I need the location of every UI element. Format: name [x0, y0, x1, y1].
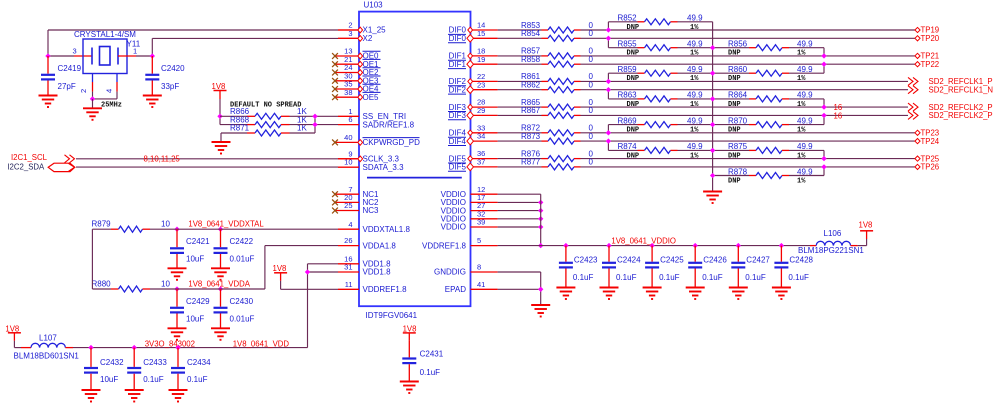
- svg-text:C2421: C2421: [186, 237, 210, 246]
- svg-text:TP22: TP22: [921, 60, 940, 69]
- svg-text:0.1uF: 0.1uF: [187, 375, 208, 384]
- svg-text:23: 23: [477, 80, 485, 89]
- svg-text:DNP: DNP: [728, 50, 741, 58]
- svg-text:R880: R880: [92, 279, 112, 288]
- svg-text:49.9: 49.9: [797, 167, 813, 176]
- svg-text:49.9: 49.9: [687, 91, 703, 100]
- svg-text:C2429: C2429: [186, 297, 210, 306]
- svg-text:49.9: 49.9: [687, 14, 703, 23]
- svg-text:VDDXTAL1.8: VDDXTAL1.8: [363, 225, 411, 234]
- svg-text:EPAD: EPAD: [445, 285, 466, 294]
- svg-text:R879: R879: [92, 220, 112, 229]
- svg-text:R864: R864: [728, 91, 748, 100]
- svg-text:R874: R874: [618, 142, 638, 151]
- svg-text:C2425: C2425: [660, 255, 684, 264]
- svg-text:10: 10: [344, 158, 352, 167]
- svg-text:VDDA1.8: VDDA1.8: [363, 241, 397, 250]
- svg-text:IDT9FGV0641: IDT9FGV0641: [366, 311, 418, 320]
- svg-text:19: 19: [477, 55, 485, 64]
- svg-text:BLM18BD601SN1: BLM18BD601SN1: [14, 351, 80, 360]
- svg-text:41: 41: [477, 280, 485, 289]
- svg-text:1%: 1%: [797, 101, 806, 109]
- svg-text:49.9: 49.9: [797, 40, 813, 49]
- svg-text:VDD1.8: VDD1.8: [363, 268, 392, 277]
- svg-text:3V3O_843002: 3V3O_843002: [145, 339, 195, 348]
- svg-text:R878: R878: [728, 167, 748, 176]
- svg-text:0.1uF: 0.1uF: [659, 273, 680, 282]
- svg-text:0.1uF: 0.1uF: [420, 368, 441, 377]
- svg-text:1V8: 1V8: [212, 82, 226, 91]
- svg-text:NC3: NC3: [363, 206, 380, 215]
- svg-text:C2419: C2419: [58, 64, 82, 73]
- svg-text:R873: R873: [521, 132, 541, 141]
- svg-text:R862: R862: [521, 81, 541, 90]
- svg-text:10uF: 10uF: [186, 254, 204, 263]
- svg-text:1V8: 1V8: [5, 324, 19, 333]
- svg-text:1%: 1%: [690, 50, 699, 58]
- svg-text:8: 8: [477, 263, 481, 272]
- svg-text:0.1uF: 0.1uF: [788, 273, 809, 282]
- svg-text:11: 11: [345, 280, 353, 289]
- svg-text:C2433: C2433: [143, 358, 167, 367]
- svg-text:DIF4: DIF4: [449, 137, 467, 146]
- svg-text:R867: R867: [521, 106, 541, 115]
- svg-text:VDDREF1.8: VDDREF1.8: [363, 285, 408, 294]
- svg-text:SADR/REF1.8: SADR/REF1.8: [363, 120, 415, 129]
- svg-text:1V8_0641_VDD: 1V8_0641_VDD: [233, 339, 290, 348]
- svg-text:49.9: 49.9: [687, 65, 703, 74]
- svg-text:DIF0: DIF0: [449, 34, 467, 43]
- svg-text:I2C2_SDA: I2C2_SDA: [7, 163, 45, 172]
- svg-text:0.1uF: 0.1uF: [745, 273, 766, 282]
- svg-text:0.1uF: 0.1uF: [573, 273, 594, 282]
- svg-text:0.1uF: 0.1uF: [702, 273, 723, 282]
- svg-text:DIF3: DIF3: [449, 111, 467, 120]
- svg-text:R877: R877: [521, 158, 541, 167]
- svg-text:DNP: DNP: [627, 101, 640, 109]
- svg-text:34: 34: [477, 132, 485, 141]
- svg-text:TP20: TP20: [921, 34, 940, 43]
- svg-text:1%: 1%: [690, 75, 699, 83]
- svg-text:10: 10: [161, 279, 170, 288]
- svg-text:DNP: DNP: [627, 75, 640, 83]
- svg-text:R852: R852: [618, 14, 638, 23]
- svg-text:0: 0: [589, 29, 594, 38]
- svg-text:0: 0: [589, 158, 594, 167]
- svg-text:U103: U103: [364, 1, 384, 10]
- svg-text:BLM18PG221SN1: BLM18PG221SN1: [798, 246, 864, 255]
- svg-text:10: 10: [161, 220, 170, 229]
- svg-text:3: 3: [348, 29, 352, 38]
- svg-text:49.9: 49.9: [797, 116, 813, 125]
- svg-text:X2: X2: [363, 34, 373, 43]
- svg-text:DNP: DNP: [728, 178, 741, 186]
- svg-text:8,10,11,25: 8,10,11,25: [144, 154, 181, 163]
- svg-text:VDDREF1.8: VDDREF1.8: [422, 241, 467, 250]
- svg-text:DNP: DNP: [627, 50, 640, 58]
- svg-text:38: 38: [344, 88, 352, 97]
- svg-text:2: 2: [79, 89, 88, 93]
- svg-text:C2420: C2420: [161, 64, 185, 73]
- svg-text:C2432: C2432: [100, 358, 124, 367]
- svg-text:49.9: 49.9: [687, 40, 703, 49]
- svg-text:C2428: C2428: [789, 255, 813, 264]
- svg-text:27pF: 27pF: [58, 82, 76, 91]
- svg-text:0: 0: [589, 132, 594, 141]
- svg-text:0: 0: [589, 81, 594, 90]
- svg-text:0.01uF: 0.01uF: [230, 254, 255, 263]
- svg-text:1V8: 1V8: [273, 264, 287, 273]
- svg-text:DIF5: DIF5: [449, 163, 467, 172]
- svg-text:CKPWRGD_PD: CKPWRGD_PD: [363, 138, 421, 147]
- svg-text:15: 15: [477, 29, 485, 38]
- svg-text:R858: R858: [521, 55, 541, 64]
- svg-text:CRYSTAL1-4/SM: CRYSTAL1-4/SM: [74, 30, 136, 39]
- svg-text:C2423: C2423: [574, 255, 598, 264]
- svg-text:SDATA_3.3: SDATA_3.3: [363, 163, 405, 172]
- svg-text:1V8_0641_VDDIO: 1V8_0641_VDDIO: [611, 236, 676, 245]
- svg-text:R860: R860: [728, 65, 748, 74]
- svg-text:1%: 1%: [690, 127, 699, 135]
- svg-text:DNP: DNP: [728, 75, 741, 83]
- svg-text:DNP: DNP: [627, 127, 640, 135]
- svg-text:1%: 1%: [797, 127, 806, 135]
- svg-text:R859: R859: [618, 65, 638, 74]
- svg-text:0.1uF: 0.1uF: [143, 375, 164, 384]
- svg-text:TP24: TP24: [921, 137, 940, 146]
- svg-text:4: 4: [348, 220, 352, 229]
- svg-text:I2C1_SCL: I2C1_SCL: [11, 153, 48, 162]
- svg-text:39: 39: [477, 218, 485, 227]
- svg-text:29: 29: [477, 106, 485, 115]
- svg-text:C2422: C2422: [230, 237, 254, 246]
- svg-text:R869: R869: [618, 116, 638, 125]
- svg-text:C2431: C2431: [420, 349, 444, 358]
- svg-text:DNP: DNP: [728, 152, 741, 160]
- svg-text:DNP: DNP: [728, 127, 741, 135]
- svg-text:DNP: DNP: [728, 101, 741, 109]
- svg-text:4: 4: [105, 89, 114, 93]
- svg-text:R854: R854: [521, 29, 541, 38]
- svg-text:C2426: C2426: [703, 255, 727, 264]
- svg-text:DEFAULT NO SPREAD: DEFAULT NO SPREAD: [230, 101, 301, 109]
- svg-text:1%: 1%: [690, 101, 699, 109]
- svg-text:1V8_0641_VDDXTAL: 1V8_0641_VDDXTAL: [188, 220, 264, 229]
- svg-text:1%: 1%: [797, 178, 806, 186]
- svg-text:0.1uF: 0.1uF: [616, 273, 637, 282]
- svg-text:L106: L106: [824, 229, 842, 238]
- svg-text:0.01uF: 0.01uF: [230, 314, 255, 323]
- svg-text:1%: 1%: [690, 24, 699, 32]
- svg-text:37: 37: [477, 158, 485, 167]
- svg-text:DNP: DNP: [627, 152, 640, 160]
- svg-text:33pF: 33pF: [161, 82, 179, 91]
- svg-text:49.9: 49.9: [687, 142, 703, 151]
- svg-text:1V8: 1V8: [403, 324, 417, 333]
- svg-text:0: 0: [589, 106, 594, 115]
- svg-text:49.9: 49.9: [797, 65, 813, 74]
- svg-text:1%: 1%: [797, 50, 806, 58]
- svg-text:R871: R871: [230, 124, 250, 133]
- svg-text:10uF: 10uF: [100, 375, 118, 384]
- svg-text:DIF2: DIF2: [449, 85, 467, 94]
- svg-text:C2427: C2427: [746, 255, 770, 264]
- svg-text:25MHz: 25MHz: [101, 102, 122, 110]
- svg-text:TP26: TP26: [921, 163, 940, 172]
- svg-text:49.9: 49.9: [797, 91, 813, 100]
- svg-text:25: 25: [344, 201, 352, 210]
- svg-text:SD2_REFCLK1_N: SD2_REFCLK1_N: [929, 85, 994, 94]
- svg-text:3: 3: [73, 47, 77, 56]
- svg-text:GNDDIG: GNDDIG: [434, 268, 466, 277]
- svg-text:31: 31: [344, 263, 352, 272]
- svg-text:R855: R855: [618, 40, 638, 49]
- svg-text:1%: 1%: [797, 152, 806, 160]
- svg-text:1V8: 1V8: [859, 220, 873, 229]
- svg-text:16: 16: [834, 111, 843, 120]
- svg-text:0: 0: [589, 55, 594, 64]
- svg-text:1: 1: [133, 47, 137, 56]
- svg-text:R856: R856: [728, 40, 748, 49]
- svg-text:SD2_REFCLK2_P: SD2_REFCLK2_P: [929, 111, 993, 120]
- svg-text:DNP: DNP: [627, 24, 640, 32]
- svg-text:C2424: C2424: [617, 255, 641, 264]
- svg-text:1%: 1%: [690, 152, 699, 160]
- svg-text:R863: R863: [618, 91, 638, 100]
- svg-text:10uF: 10uF: [186, 314, 204, 323]
- svg-text:49.9: 49.9: [687, 116, 703, 125]
- svg-text:VDDIO: VDDIO: [441, 223, 466, 232]
- svg-text:26: 26: [344, 236, 352, 245]
- svg-text:1%: 1%: [797, 75, 806, 83]
- svg-text:L107: L107: [39, 333, 57, 342]
- svg-text:5: 5: [477, 236, 481, 245]
- svg-text:OE5: OE5: [363, 93, 380, 102]
- svg-text:DIF1: DIF1: [449, 60, 467, 69]
- svg-text:6: 6: [348, 115, 352, 124]
- svg-text:49.9: 49.9: [797, 142, 813, 151]
- svg-text:C2434: C2434: [187, 358, 211, 367]
- svg-text:C2430: C2430: [230, 297, 254, 306]
- svg-text:R875: R875: [728, 142, 748, 151]
- svg-text:R870: R870: [728, 116, 748, 125]
- svg-text:40: 40: [344, 133, 352, 142]
